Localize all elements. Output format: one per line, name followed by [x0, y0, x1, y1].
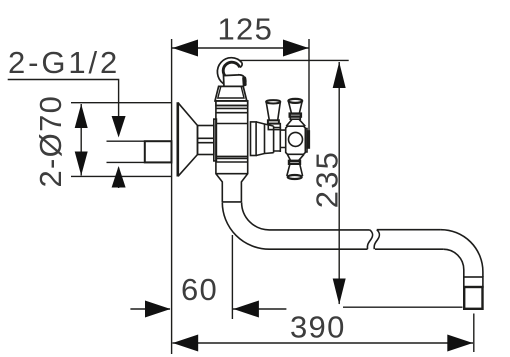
- top reference line 235: [233, 59, 349, 61]
- svg-text:60: 60: [181, 272, 218, 307]
- svg-text:125: 125: [218, 12, 274, 47]
- hook ring body fill: [217, 58, 243, 86]
- spout bend right outer: [441, 230, 483, 277]
- top arm body: [289, 102, 303, 114]
- holder cup outer: [215, 86, 247, 101]
- svg-text:2-Ø70: 2-Ø70: [33, 95, 68, 188]
- bottom reference line 235: [343, 306, 463, 308]
- leader 2-G1/2 lower segment: [118, 168, 120, 188]
- top arm flare: [286, 120, 305, 127]
- dimension dia70 bottom extension: [71, 175, 172, 177]
- cross handle: [286, 99, 310, 179]
- bottom arm flare: [287, 154, 304, 161]
- spout break left S: [367, 230, 372, 249]
- top arm cap: [288, 99, 302, 103]
- leader 2-G1/2 underline: [8, 80, 119, 117]
- bottom arm body: [287, 164, 303, 176]
- bottom arm collar: [289, 161, 300, 164]
- hex nut facet lines: [198, 138, 214, 142]
- spout right run top: [377, 229, 441, 231]
- rear handle cap: [266, 100, 280, 103]
- hub body: [286, 126, 306, 154]
- dimension 235 line: [338, 62, 340, 304]
- hex nut: [198, 126, 214, 155]
- hub circle: [289, 132, 303, 146]
- spout end ring: [464, 277, 483, 287]
- top arm collar2: [290, 117, 300, 120]
- arrow dia70 down: [75, 152, 88, 176]
- dimension 390 right extension line: [473, 314, 475, 353]
- arrow dia70 up: [75, 104, 88, 128]
- bonnet cone: [256, 122, 274, 156]
- holder cup inner: [218, 87, 244, 98]
- escutcheon cone: [178, 103, 198, 177]
- dimension 60 line left tail: [130, 308, 170, 310]
- top arm collar: [290, 114, 301, 117]
- arrow 390 right: [447, 335, 473, 352]
- right arm cap: [305, 129, 307, 153]
- rear handle body: [266, 102, 280, 120]
- holder base plate: [216, 101, 248, 106]
- spout bend left inner: [242, 202, 370, 230]
- nut collar: [214, 119, 217, 161]
- rear handle collar: [268, 120, 279, 123]
- hook upper tip cap: [240, 63, 242, 68]
- stem: [280, 130, 285, 147]
- dimension 125 line: [172, 47, 309, 49]
- arrow 60 left: [145, 301, 171, 318]
- bottom arm cap: [288, 175, 302, 179]
- spout bend right inner: [443, 249, 464, 277]
- svg-text:2-G1/2: 2-G1/2: [8, 45, 120, 80]
- inlet pipe top line: [107, 140, 172, 142]
- front valve bonnet: [251, 122, 286, 156]
- rear bonnet: [268, 124, 280, 130]
- cartridge section: [274, 127, 281, 153]
- wall line: [171, 39, 173, 354]
- arrow leader G12 up: [112, 166, 126, 188]
- arrows: [75, 40, 473, 352]
- spout neck joint: [222, 201, 241, 203]
- body bottom joint lines: [216, 156, 248, 173]
- bonnet collar at body: [251, 122, 257, 156]
- arrow leader G12 down: [112, 116, 126, 138]
- inlet pipe bottom line: [107, 161, 172, 163]
- hook knob capsule: [224, 75, 246, 88]
- hook C outer arc: [217, 58, 243, 86]
- spout right run bottom: [375, 248, 443, 250]
- aerator: [464, 287, 482, 309]
- arrow 125 left: [173, 40, 199, 57]
- arrow 125 right: [283, 40, 309, 57]
- arrow 235 bottom: [333, 279, 346, 305]
- dimension 60 line right tail: [233, 308, 286, 310]
- union nut on inlet pipe: [145, 141, 172, 162]
- svg-text:235: 235: [310, 150, 345, 208]
- rear valve handle: [266, 100, 280, 130]
- body top joint lines: [216, 106, 248, 124]
- spout bend left outer: [222, 202, 367, 249]
- arrow 60 right: [233, 301, 259, 318]
- dimension dia70 line: [80, 104, 82, 176]
- spout break right S: [374, 230, 379, 250]
- escutcheon cylinder edge: [177, 102, 180, 176]
- arrow 390 left: [173, 335, 199, 352]
- arrow 235 top: [333, 62, 346, 88]
- dimension dia70 top extension: [71, 102, 172, 104]
- right arm dark cap: [307, 131, 309, 148]
- svg-text:390: 390: [290, 310, 346, 345]
- hook C inner arc: [223, 62, 239, 79]
- hook knob dark bar: [242, 76, 247, 86]
- body outline: [216, 106, 248, 203]
- shower hook assembly: [215, 58, 248, 106]
- dimension 60 right extension line: [231, 235, 233, 319]
- dimension 390 line: [173, 342, 474, 344]
- dimension 125 right extension line: [308, 39, 310, 148]
